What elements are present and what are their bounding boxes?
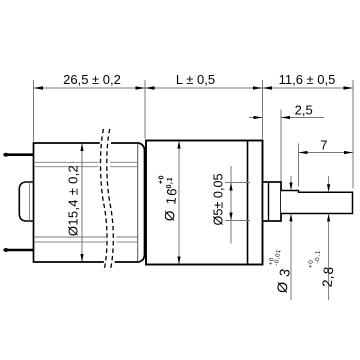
extension line motor/gearbox joint (x=145) bbox=[144, 80, 146, 139]
arrow L right / 11,6 left bowtie at x=262.5 bbox=[253, 86, 272, 89]
Ø3 top arrow bbox=[289, 183, 292, 191]
brush cap tangent line bbox=[29, 182, 31, 220]
svg-text:2,5: 2,5 bbox=[295, 102, 313, 117]
brush cap bump bbox=[19, 182, 33, 221]
motor crimp line top 2 bbox=[34, 166, 138, 168]
motor crimp line bottom 1 bbox=[34, 236, 138, 238]
motor crimp line top 1 bbox=[34, 161, 138, 163]
svg-text:7: 7 bbox=[320, 137, 327, 152]
label Ø5 bbox=[212, 173, 226, 225]
dim Ø5 extension bottom bbox=[225, 220, 250, 222]
dim Ø16 line bbox=[178, 141, 180, 264]
break band white mask bbox=[99, 128, 117, 272]
arrow 11,6 right bbox=[344, 86, 354, 89]
2,8 top arrow bbox=[327, 184, 330, 192]
arrow 2,5 left (tip at 262.5 pointing right) bbox=[254, 116, 263, 119]
extension line left of motor (x=33.5) bbox=[33, 80, 35, 142]
break line right bbox=[107, 129, 114, 271]
dimension 2,5: extension line at boss end x=281 bbox=[280, 110, 282, 182]
Ø3 top stem bbox=[290, 176, 292, 184]
arrow Ø16 bottom bbox=[177, 257, 180, 265]
motor body outline bbox=[34, 143, 145, 262]
svg-text:26,5 ± 0,2: 26,5 ± 0,2 bbox=[63, 72, 121, 87]
dim Ø5 line bbox=[230, 166, 232, 244]
arrow Ø16 top bbox=[177, 141, 180, 149]
terminal pin bottom bbox=[4, 249, 34, 252]
2,8 top stem bbox=[328, 176, 330, 186]
arrow 7 left bbox=[299, 151, 308, 154]
extension line shaft end (x=353) bbox=[352, 80, 354, 189]
2,8 bottom arrow bbox=[327, 214, 330, 222]
arrow Ø5 top bbox=[229, 183, 232, 191]
arrow Ø5 bottom bbox=[229, 213, 232, 221]
dim Ø15,4 line bbox=[81, 144, 83, 261]
dimension 2,5 line left stub bbox=[249, 117, 263, 119]
dimension 7 line bbox=[299, 152, 354, 154]
svg-text:-0,1: -0,1 bbox=[164, 176, 174, 192]
gearbox body bbox=[146, 141, 263, 265]
motor can seam line bbox=[137, 144, 139, 262]
boss internal line bbox=[268, 183, 270, 220]
arrow 26,5 right / L left bowtie at x=145 bbox=[136, 86, 155, 89]
arrow 7 right bbox=[344, 151, 353, 154]
motor crimp line bottom 2 bbox=[34, 241, 138, 243]
dim Ø5 extension top bbox=[225, 182, 250, 184]
break line left bbox=[100, 129, 107, 271]
label 2,8 with tolerance bbox=[306, 249, 338, 288]
gearbox internal line bbox=[247, 141, 249, 264]
terminal pin top end blob bbox=[4, 153, 8, 157]
svg-text:-0,1: -0,1 bbox=[314, 250, 322, 264]
Ø3 bottom stem bbox=[290, 221, 292, 300]
shaft outline bbox=[281, 191, 353, 214]
arrow Ø15,4 bottom bbox=[80, 254, 83, 262]
terminal pin bottom end blob bbox=[4, 248, 8, 252]
arrow 2,5 right (tip at 281 pointing left) bbox=[281, 116, 290, 119]
label Ø16 with tolerance bbox=[153, 174, 181, 221]
top dimension line y=88 bbox=[34, 87, 354, 89]
2,8 bottom stem bbox=[328, 221, 330, 300]
svg-text:Ø15,4 ± 0,2: Ø15,4 ± 0,2 bbox=[66, 165, 81, 236]
Ø3 bottom arrow bbox=[289, 214, 292, 222]
svg-text:11,6 ± 0,5: 11,6 ± 0,5 bbox=[279, 72, 336, 87]
extension line gearbox face (x=262.5) bbox=[262, 80, 264, 139]
bearing boss bbox=[263, 182, 282, 221]
terminal pin top bbox=[4, 153, 34, 156]
dimension 7: extension line at flat start x=298.5 bbox=[298, 144, 300, 187]
label Ø3 with tolerance bbox=[264, 248, 295, 294]
svg-text:L ± 0,5: L ± 0,5 bbox=[176, 72, 215, 87]
svg-text:Ø5± 0,05: Ø5± 0,05 bbox=[212, 173, 226, 225]
arrow 26,5 left bbox=[34, 86, 44, 89]
dimension 2,5 line right stub bbox=[281, 117, 324, 119]
svg-text:2,8: 2,8 bbox=[320, 265, 337, 287]
arrow Ø15,4 top bbox=[80, 143, 83, 151]
